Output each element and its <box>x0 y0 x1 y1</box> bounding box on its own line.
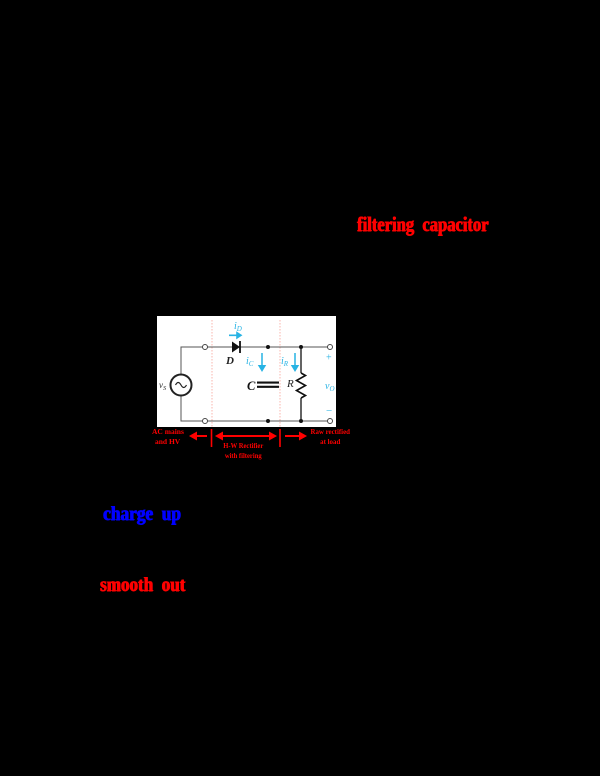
terminal bottom right <box>328 419 333 424</box>
terminal top right <box>328 345 333 350</box>
node dot bottom C <box>266 419 270 423</box>
svg-text:+: + <box>326 353 332 364</box>
wire bottom <box>181 396 328 422</box>
wire top middle <box>208 346 233 348</box>
terminal bottom left <box>203 419 208 424</box>
current iC arrow <box>259 353 265 371</box>
svg-text:D: D <box>225 355 234 367</box>
red note: ac mains (left, 2 lines) <box>152 427 184 446</box>
red note: dc output (right, 2 lines) <box>310 427 350 446</box>
svg-text:iD: iD <box>234 321 242 333</box>
dimension bar right <box>279 429 281 447</box>
svg-text:iR: iR <box>281 356 289 368</box>
node dot top R <box>299 345 303 349</box>
node dot bottom R <box>299 419 303 423</box>
annotation: "charge up" <box>103 503 181 526</box>
double arrow middle region <box>217 433 275 439</box>
svg-text:vS: vS <box>159 380 167 392</box>
svg-text:iC: iC <box>246 356 254 368</box>
annotation: "filtering capacitor" <box>357 212 488 237</box>
red dashed boundary line right <box>279 320 281 427</box>
arrow to left region <box>191 433 207 439</box>
red annotation row under figure <box>191 429 305 447</box>
capacitor C plates <box>257 382 279 384</box>
resistor R <box>300 349 302 373</box>
diode D <box>232 342 240 353</box>
arrow to right region <box>285 433 305 439</box>
source vs <box>171 375 192 396</box>
current iR arrow <box>292 353 298 371</box>
coordinate offset: svg origin at page (140,310); box at x17..196, y6..117 <box>159 320 335 427</box>
red note: rectifier (middle, 2 lines) <box>223 441 263 460</box>
annotation: "smooth out" <box>100 574 185 597</box>
svg-text:R: R <box>286 378 294 390</box>
svg-text:−: − <box>326 405 332 417</box>
wire top <box>181 347 203 375</box>
node dot top C <box>266 345 270 349</box>
terminal top left <box>203 345 208 350</box>
svg-text:vO: vO <box>325 381 335 393</box>
red dashed boundary line left <box>211 320 213 427</box>
wire cathode to right terminal <box>240 346 328 348</box>
svg-text:C: C <box>247 379 256 393</box>
dimension bar left <box>211 429 213 447</box>
circuit figure: peak rectifier <box>157 316 336 427</box>
current iD arrow <box>229 333 241 338</box>
